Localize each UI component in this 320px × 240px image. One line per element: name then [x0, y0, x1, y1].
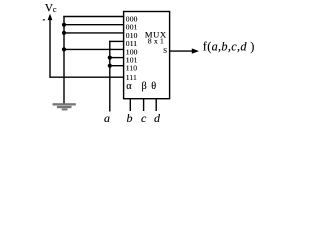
svg-text:α: α	[126, 81, 132, 92]
power supply Vc label	[45, 3, 57, 15]
ground bus wire	[63, 16, 65, 104]
select wire c	[143, 99, 145, 111]
junction row 001	[62, 23, 66, 27]
svg-text:110: 110	[126, 64, 138, 73]
svg-text:8x1: 8x1	[148, 36, 166, 45]
output arrowhead	[192, 48, 199, 53]
svg-text:β: β	[142, 81, 147, 92]
svg-text:θ: θ	[151, 81, 156, 92]
svg-text:d: d	[154, 111, 161, 125]
svg-text:c: c	[53, 4, 57, 14]
polarity dash	[43, 19, 45, 20]
wire row 110	[110, 65, 124, 67]
select wire d	[155, 99, 157, 111]
select wire b	[129, 99, 131, 111]
wire row 001	[64, 24, 124, 26]
junction row 100	[62, 47, 66, 51]
svg-text:b: b	[127, 111, 133, 125]
mux U1 body	[124, 12, 170, 99]
wire row 010	[64, 32, 124, 34]
wire row 101	[110, 57, 124, 59]
wire row 100	[64, 48, 124, 50]
svg-text:f(a,b,c,d ): f(a,b,c,d )	[203, 39, 255, 53]
power supply arrow	[48, 14, 53, 78]
svg-text:a: a	[104, 111, 110, 125]
svg-text:c: c	[141, 111, 147, 125]
node a bus wire	[109, 41, 111, 112]
wire row 111	[49, 76, 124, 78]
svg-text:S: S	[163, 48, 167, 55]
junction row 110	[108, 64, 112, 68]
output wire S	[170, 50, 193, 52]
junction row 010	[62, 31, 66, 35]
ground	[53, 103, 76, 110]
junction row 101	[108, 56, 112, 60]
wire row 000	[63, 16, 124, 18]
wire row 011	[109, 40, 124, 42]
